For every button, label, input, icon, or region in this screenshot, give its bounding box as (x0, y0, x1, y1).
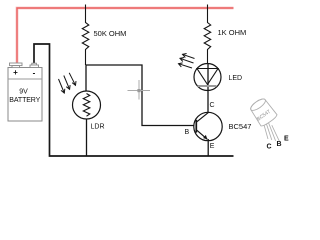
svg-text:B: B (277, 141, 282, 148)
svg-text:LDR: LDR (91, 124, 105, 131)
svg-text:E: E (210, 143, 215, 150)
svg-text:C: C (210, 102, 215, 109)
svg-text:+: + (13, 68, 18, 77)
svg-text:1K OHM: 1K OHM (218, 28, 247, 37)
svg-text:E: E (284, 136, 289, 143)
svg-text:LED: LED (229, 75, 243, 82)
svg-text:BATTERY: BATTERY (9, 97, 40, 104)
svg-text:-: - (33, 69, 36, 78)
svg-text:50K OHM: 50K OHM (94, 29, 127, 38)
svg-text:C: C (267, 144, 272, 151)
svg-text:9V: 9V (19, 89, 28, 96)
svg-text:B: B (185, 129, 190, 136)
svg-text:BC547: BC547 (229, 122, 252, 131)
